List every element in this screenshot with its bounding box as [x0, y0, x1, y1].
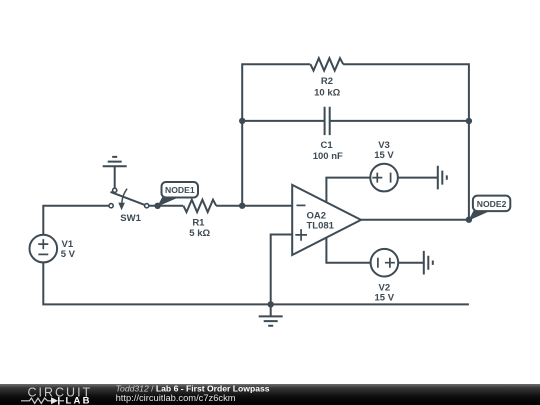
wire top feedback left segment and left vertical: [242, 64, 310, 206]
CircuitLab logo text CIRCUIT: [28, 385, 93, 399]
resistor R2: [310, 58, 343, 70]
label V2 designator: [378, 282, 390, 293]
svg-text:V1: V1: [62, 239, 74, 250]
CircuitLab logo text LAB: [66, 396, 92, 405]
label V2 value 15 V: [375, 292, 395, 303]
label R2 designator: [321, 76, 333, 87]
voltage source V2 circle: [371, 249, 399, 277]
ground right of V3: [438, 166, 447, 190]
switch SW1 common terminal: [145, 204, 149, 208]
op-amp OA2 triangle: [292, 185, 361, 255]
svg-text:R2: R2: [321, 76, 333, 87]
node flag NODE1: [157, 182, 198, 207]
voltage source V3 minus plate: [390, 173, 392, 183]
wire V1 to switch and V1 top lead: [43, 206, 108, 235]
voltage source V2 plus sign: [385, 258, 395, 268]
voltage source V2 minus plate: [377, 258, 379, 268]
capacitor C1: [325, 107, 330, 135]
footer title line: [116, 384, 270, 394]
junction dot output at C1: [466, 118, 472, 124]
junction dot NODE2: [466, 217, 472, 223]
svg-text:Todd312 / Lab 6 - First Order: Todd312 / Lab 6 - First Order Lowpass: [116, 384, 270, 394]
footer url line: [116, 393, 236, 403]
junction dot inverting node at R1: [239, 203, 245, 209]
svg-text:NODE2: NODE2: [477, 199, 507, 209]
svg-text:http://circuitlab.com/c7z6ckm: http://circuitlab.com/c7z6ckm: [116, 393, 236, 403]
CircuitLab logo resistor zigzag: [21, 398, 51, 403]
svg-text:SW1: SW1: [120, 213, 141, 224]
junction dot NODE1: [154, 203, 160, 209]
voltage source V3 plus sign: [372, 173, 382, 183]
wire top feedback right segment and right vertical: [343, 64, 469, 220]
svg-text:15 V: 15 V: [375, 292, 395, 303]
label C1 designator: [321, 140, 334, 151]
junction dot ground rail: [268, 301, 274, 307]
switch SW1 throw terminal left: [109, 204, 113, 208]
label op-amp OA2 designator: [307, 210, 327, 221]
ground bottom center: [259, 304, 283, 325]
svg-text:NODE1: NODE1: [165, 185, 195, 195]
label R2 value 10 k ohm: [314, 87, 340, 98]
op-amp OA2 minus input sign: [297, 204, 306, 206]
wire C1 row right: [330, 120, 469, 122]
label C1 value 100 nF: [313, 151, 343, 162]
label V3 value 15 V: [374, 150, 394, 161]
svg-text:100 nF: 100 nF: [313, 151, 343, 162]
ground right of V2: [424, 251, 433, 275]
switch SW1 actuation arrow: [118, 189, 127, 211]
svg-text:5 kΩ: 5 kΩ: [189, 228, 210, 239]
svg-text:5 V: 5 V: [61, 249, 76, 260]
op-amp OA2 plus input sign: [295, 229, 307, 241]
switch SW1 throw terminal top: [113, 188, 117, 192]
node flag NODE2: [469, 196, 511, 221]
label V1 value 5 V: [61, 249, 76, 260]
wire V3 to ground: [398, 177, 438, 179]
svg-text:LAB: LAB: [66, 396, 92, 405]
svg-text:C1: C1: [321, 140, 334, 151]
voltage source V1 plus sign: [38, 239, 48, 249]
label SW1: [120, 213, 141, 224]
wire R1 to op-amp inverting input: [216, 205, 292, 207]
resistor R1: [183, 200, 216, 212]
junction dot inverting node at C1: [239, 118, 245, 124]
CircuitLab logo diode: [51, 397, 64, 405]
label op-amp OA2 type TL081: [307, 220, 335, 231]
wire V2 to ground: [398, 262, 423, 264]
voltage source V3 circle: [370, 164, 398, 192]
wire op-amp V+ pin riser: [326, 178, 370, 203]
voltage source V1 minus sign: [38, 253, 48, 255]
wire V1 bottom lead and bottom rail: [43, 262, 469, 304]
wire C1 row left: [242, 120, 324, 122]
wire op-amp output: [361, 219, 469, 221]
voltage source V1 circle: [30, 235, 58, 263]
wire op-amp V- pin riser: [326, 238, 370, 263]
label V3 designator: [378, 140, 390, 151]
svg-text:TL081: TL081: [307, 220, 335, 231]
label R1 designator: [192, 218, 205, 229]
svg-text:15 V: 15 V: [374, 150, 394, 161]
label R1 value 5 k ohm: [189, 228, 210, 239]
svg-text:10 kΩ: 10 kΩ: [314, 87, 340, 98]
ground above switch (flipped): [103, 157, 127, 188]
label V1 designator: [62, 239, 74, 250]
wire non-inverting input L: [271, 235, 293, 305]
switch SW1 arm: [111, 192, 145, 205]
footer bar: [0, 384, 540, 405]
wire switch to R1: [149, 205, 183, 207]
